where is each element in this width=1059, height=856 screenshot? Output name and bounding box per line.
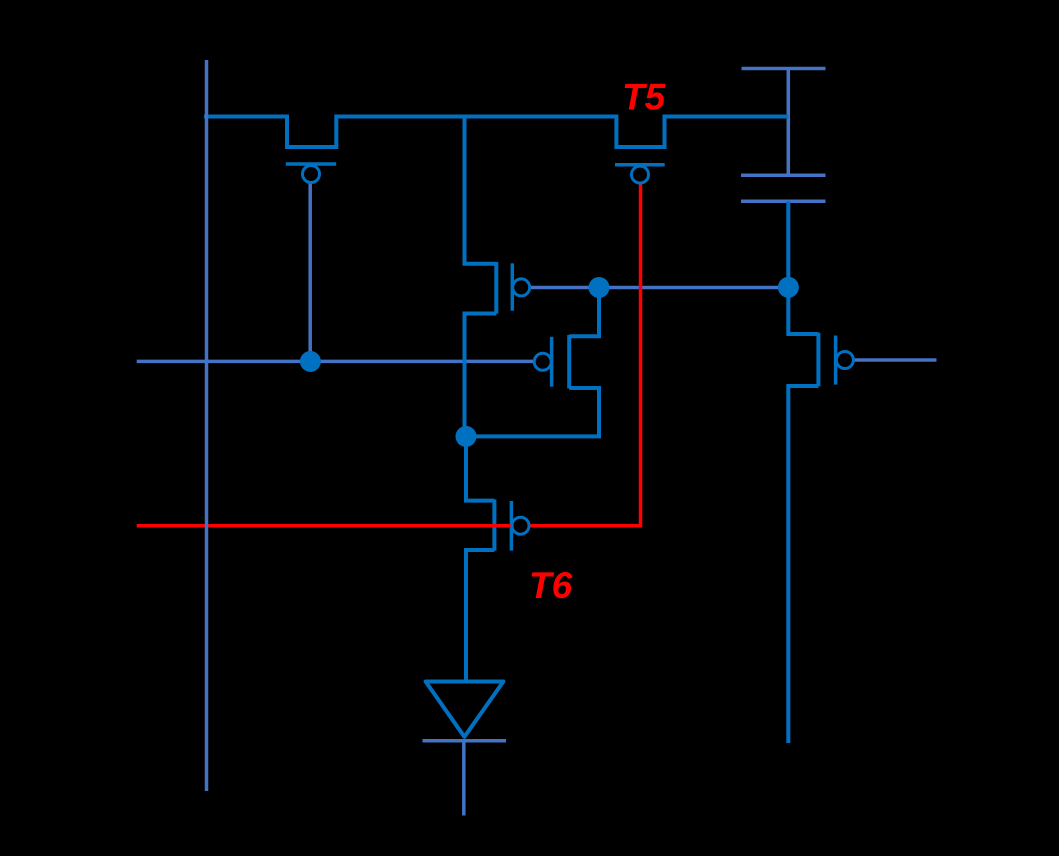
transistor M3: gate bar	[550, 337, 554, 387]
svg-text:T6: T6	[529, 565, 573, 606]
transistor M3: gate bubble	[534, 353, 551, 370]
svg-text:T5: T5	[622, 77, 667, 118]
transistor M2: gate bar	[511, 263, 515, 310]
transistor (top-left): gate bar	[286, 162, 336, 166]
wire: gate of top-left transistor down to select line (slate)	[308, 183, 312, 362]
wire: left column bus (slate vertical, drawn over red)	[205, 60, 209, 791]
capacitor C1: bottom plate	[741, 199, 826, 203]
transistor (top-left): gate bubble	[303, 166, 320, 183]
node: junction dot storage net left	[589, 277, 610, 298]
transistor M5: gate bubble	[836, 352, 853, 369]
transistor M2 (middle, gate facing right): channel + drain/source	[465, 117, 497, 437]
wire: top rail with transistor channel notches (bright)	[204, 117, 788, 148]
label T5	[622, 77, 667, 118]
wire: below diode cathode (slate)	[462, 741, 466, 816]
transistor M5: gate bar	[834, 336, 838, 385]
wire: output line right of output transistor (slate)	[854, 358, 937, 362]
transistor T6: channel + drain/source	[466, 436, 494, 681]
transistor T5: gate bubble	[632, 166, 649, 183]
wire: cap bottom plate to storage junction (bright)	[786, 201, 790, 287]
power symbol: VDD T-bar top right	[742, 69, 826, 177]
transistor M3 (middle, gate facing left): channel + drain/source	[466, 288, 599, 437]
red net: emission control line with corner up to T5 gate	[137, 183, 641, 526]
wire: select row line (slate horizontal)	[137, 360, 534, 364]
diode D1: triangle anode (bright outline)	[426, 682, 504, 737]
transistor M5 (output, right): channel + drain/source	[788, 288, 818, 744]
transistor M2: gate bubble	[513, 279, 530, 296]
wire: storage node net (slate horizontal between junctions)	[530, 286, 788, 290]
node: junction dot storage net right (under capacitor)	[778, 277, 799, 298]
diode D1: cathode bar (slate)	[423, 739, 507, 743]
node: junction dot on select line	[300, 351, 321, 372]
transistor T6: gate bar	[510, 501, 514, 551]
transistor T6: gate bubble	[512, 517, 529, 534]
transistor T5: gate bar	[615, 163, 665, 167]
capacitor C1: top plate	[741, 173, 826, 177]
label T6	[529, 565, 573, 606]
node: junction dot at M3 source / T6 drain	[456, 426, 477, 447]
